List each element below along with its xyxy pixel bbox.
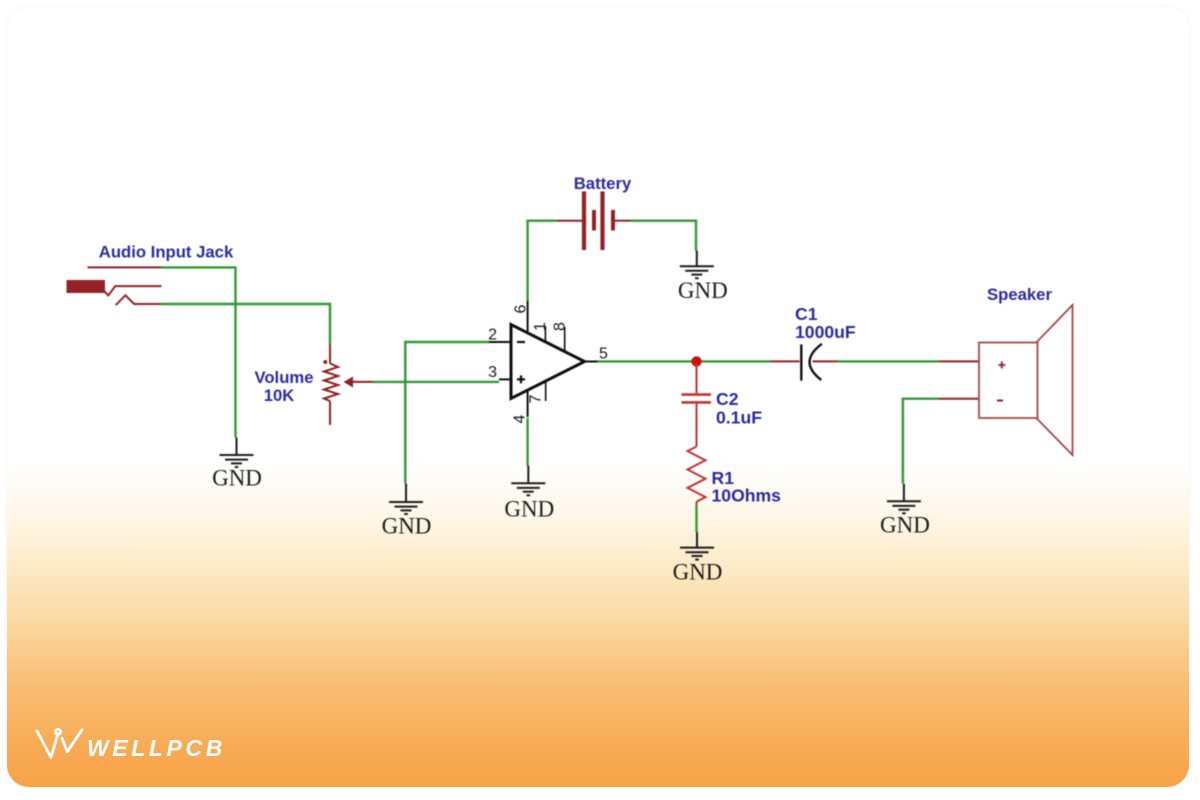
resistor R1 [688,447,706,506]
svg-text:GND: GND [678,278,728,303]
svg-text:GND: GND [212,466,262,491]
svg-text:GND: GND [382,514,432,539]
wire: op-amp pin 2 to ground [405,342,489,483]
ground GND (pin 4) [504,466,554,522]
wire: pin 6 to battery [528,221,558,301]
svg-text:C2: C2 [716,389,739,409]
svg-text:GND: GND [673,560,723,585]
svg-text:WELLPCB: WELLPCB [87,735,226,761]
pin number 1 [532,322,549,331]
pin number 8 [551,322,568,331]
wire: jack ring to volume pot [161,304,330,345]
svg-text:3: 3 [488,364,497,381]
ground GND (jack) [212,438,262,491]
pin number 6 [513,305,530,314]
wellpcb logo [30,720,290,770]
ground GND (pin 2) [382,484,432,539]
svg-text:8: 8 [551,322,568,331]
label Audio Input Jack [99,243,234,262]
node: output junction [691,356,701,366]
capacitor C2 [682,364,712,447]
svg-text:0.1uF: 0.1uF [716,408,762,428]
pin number 5 [599,346,608,363]
svg-text:5: 5 [599,346,608,363]
label C1 1000uF [795,304,856,342]
label Battery [574,174,632,193]
pin number 3 [488,364,497,381]
label Speaker [987,285,1052,304]
audio input jack J1 [67,267,163,305]
svg-text:Speaker: Speaker [987,285,1052,304]
svg-text:GND: GND [504,496,554,521]
wire: C1 to speaker [838,360,940,362]
label Volume 10K [254,368,313,405]
battery B1 [557,191,630,250]
pin number 7 [528,395,545,404]
svg-text:Audio Input Jack: Audio Input Jack [99,243,234,262]
svg-text:6: 6 [513,305,530,314]
svg-text:7: 7 [528,395,545,404]
svg-text:Battery: Battery [574,174,632,193]
ground GND (R1) [673,532,723,585]
ground GND (battery) [678,251,728,304]
svg-text:1000uF: 1000uF [795,322,856,342]
speaker LS1 [939,305,1073,455]
pin number 2 [488,327,497,344]
wire: speaker minus to ground [903,399,939,484]
label C2 0.1uF [716,389,762,428]
svg-text:1: 1 [532,322,549,331]
svg-text:10Ohms: 10Ohms [712,486,782,506]
svg-text:4: 4 [512,415,529,424]
potentiometer Volume 10K [324,345,374,426]
wire: battery to ground [630,221,696,251]
wire: pot wiper to op-amp pin 3 [373,381,499,383]
wire: jack sleeve to ground [161,267,236,437]
capacitor C1 [771,344,838,381]
wire: R1 to ground [695,505,697,532]
svg-text:10K: 10K [264,386,295,405]
svg-text:Volume: Volume [254,368,313,387]
svg-text:GND: GND [880,513,930,538]
svg-text:C1: C1 [795,304,818,324]
ground GND (speaker) [880,484,930,538]
pin number 4 [512,415,529,424]
svg-text:2: 2 [488,327,497,344]
op-amp U1 [489,301,598,417]
label R1 10Ohms [712,468,782,506]
wire: pin 4 to ground [526,418,528,466]
wire: op-amp output pin 5 to C1 [598,360,772,362]
